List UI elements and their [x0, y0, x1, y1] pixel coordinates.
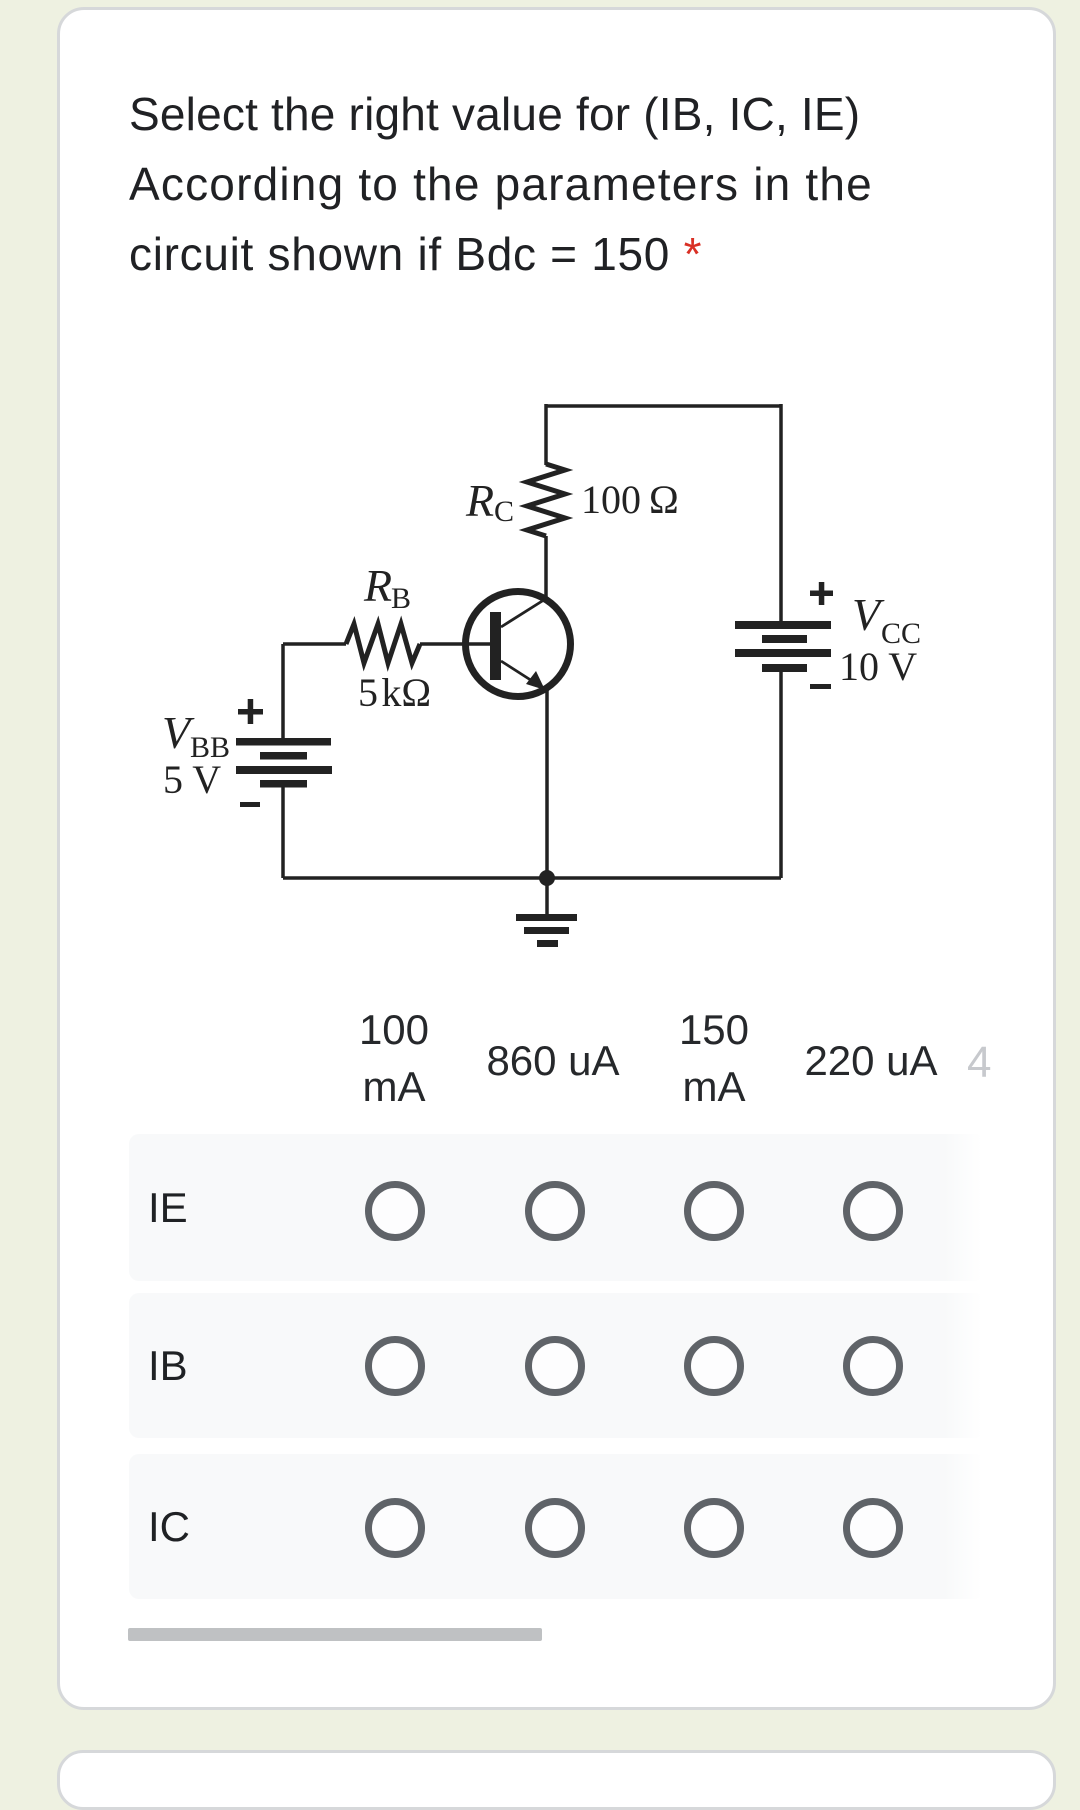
grid header clipped 4	[967, 1034, 991, 1091]
wire right rail lower	[779, 672, 783, 878]
wire base lead	[283, 642, 346, 646]
battery VBB plus	[238, 709, 263, 715]
resistor RB	[346, 624, 420, 663]
row band IC	[129, 1454, 985, 1599]
node emitter junction dot	[539, 870, 555, 886]
radio IE x 150mA	[684, 1181, 744, 1241]
svg-text:10 V: 10 V	[839, 644, 917, 689]
radio IC x 220uA	[843, 1498, 903, 1558]
radio IE x 860uA	[525, 1181, 585, 1241]
resistor RC	[527, 464, 565, 536]
wire right rail upper	[779, 404, 783, 621]
grid header column 100 mA	[294, 1001, 494, 1115]
wire base lead right	[420, 642, 491, 646]
wire emitter lead	[545, 690, 549, 878]
transistor Q1 emitter line	[501, 661, 540, 686]
radio IC x 100mA	[365, 1498, 425, 1558]
ground	[516, 914, 577, 921]
row label IC	[148, 1454, 190, 1599]
grid header column 220 uA	[771, 1032, 971, 1089]
transistor Q1 circle	[466, 592, 571, 697]
svg-text:R: R	[363, 560, 392, 611]
wire collector lead	[544, 536, 548, 598]
svg-text:5 V: 5 V	[163, 757, 221, 802]
grid header column 150 mA	[614, 1001, 814, 1115]
svg-text:5 kΩ: 5 kΩ	[358, 670, 431, 715]
battery VCC plus	[810, 591, 833, 597]
radio IC x 150mA	[684, 1498, 744, 1558]
transistor Q1 collector line	[501, 598, 547, 627]
wire bottom rail	[283, 876, 781, 880]
battery VCC plates	[735, 621, 831, 629]
radio IB x 220uA	[843, 1336, 903, 1396]
transistor Q1 base bar	[490, 612, 501, 680]
battery VBB minus	[240, 802, 260, 807]
transistor Q1 emitter arrow	[526, 671, 545, 690]
question title	[129, 79, 1029, 289]
radio IC x 860uA	[525, 1498, 585, 1558]
wire left rail lower	[281, 787, 285, 878]
row label IB	[148, 1293, 188, 1438]
radio IE x 100mA	[365, 1181, 425, 1241]
radio IB x 150mA	[684, 1336, 744, 1396]
grid header column 860 uA	[453, 1032, 653, 1089]
row band IE	[129, 1134, 985, 1281]
wire top rail	[546, 404, 781, 408]
radio IB x 860uA	[525, 1336, 585, 1396]
horizontal scrollbar	[128, 1628, 542, 1641]
battery VCC minus	[810, 684, 831, 689]
circuit schematic	[0, 0, 1080, 1000]
row label IE	[148, 1134, 188, 1281]
svg-text:C: C	[494, 495, 514, 528]
svg-text:R: R	[465, 475, 494, 526]
radio IE x 220uA	[843, 1181, 903, 1241]
battery VBB plates	[236, 738, 331, 746]
radio IB x 100mA	[365, 1336, 425, 1396]
next card sliver	[57, 1750, 1056, 1810]
wire ground stub	[545, 878, 549, 915]
wire RC top lead	[544, 404, 548, 465]
row band IB	[129, 1293, 985, 1438]
svg-text:100 Ω: 100 Ω	[581, 477, 679, 522]
wire left rail upper	[281, 644, 285, 738]
svg-text:B: B	[391, 582, 411, 615]
